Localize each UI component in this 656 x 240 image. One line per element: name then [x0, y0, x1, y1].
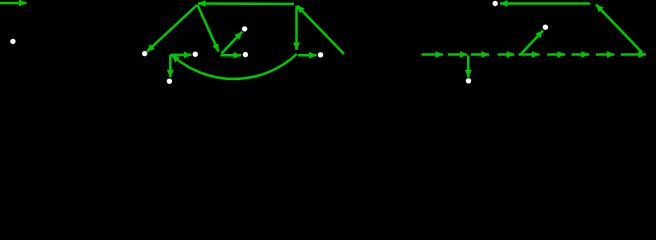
node D5: [243, 52, 248, 57]
wire branch to node D8: [467, 56, 470, 78]
wire chain c2: [448, 53, 468, 56]
wire E11 J1 to node D5: [221, 54, 242, 57]
wire E7 arc J2 to N3: [172, 54, 297, 79]
wire E8 N3 to node D3: [170, 54, 191, 57]
wire E2 N1 to node D2: [147, 5, 197, 52]
node D10: [543, 25, 548, 30]
wire E4 diagonal up to N2: [297, 6, 344, 55]
wire E5 vertical N2 down to J2: [295, 6, 298, 50]
wire E10 N1 down to junction J1: [198, 5, 219, 52]
wire E9 N3 down to node D7: [169, 55, 172, 78]
node D1: [10, 39, 15, 44]
wire chain c4: [498, 53, 515, 56]
wire branch to node D10: [521, 31, 544, 55]
wire chain c5: [519, 53, 540, 56]
node D4: [242, 26, 247, 31]
wire chain c3: [471, 53, 489, 56]
node D6: [318, 52, 323, 57]
node D3: [193, 52, 198, 57]
wire E14 chain end up to N4: [596, 5, 642, 53]
wire E1 top-left arrow: [0, 2, 27, 5]
wire E6 J2 to node D6: [298, 54, 317, 57]
wire E12 J1 to node D4: [222, 32, 243, 54]
node D9: [493, 1, 498, 6]
wire chain c9: [621, 53, 646, 56]
wire chain c8: [596, 53, 614, 56]
wire E13 N4 to node D9: [500, 2, 590, 5]
wire chain c1: [422, 53, 444, 56]
node D8: [466, 78, 471, 83]
wire chain c6: [547, 53, 565, 56]
wire E3 horizontal N2 to N1: [198, 2, 294, 5]
wire chain c7: [572, 53, 590, 56]
node D2: [142, 51, 147, 56]
node D7: [167, 79, 172, 84]
